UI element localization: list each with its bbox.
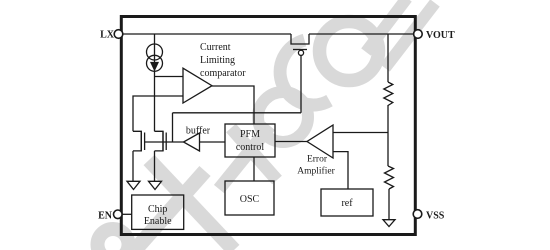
wire current source to main FET drain: [154, 71, 156, 131]
svg-text:Chip: Chip: [148, 204, 167, 215]
svg-text:VOUT: VOUT: [426, 30, 455, 41]
wire buffer input: [200, 141, 226, 143]
wire EN to chip enable: [122, 213, 131, 215]
watermark: [98, 0, 436, 250]
wire buffer output junction up: [172, 113, 174, 142]
wire error amp plus input to divider: [333, 132, 388, 134]
watermark bar backslash 1: [149, 160, 234, 250]
svg-text:Amplifier: Amplifier: [297, 166, 335, 177]
watermark small ring: [258, 92, 308, 142]
wire comparator output: [212, 86, 254, 124]
wire gate drive node horizontal: [173, 112, 302, 114]
IC outer border: [121, 17, 415, 235]
svg-text:Current: Current: [200, 42, 231, 53]
ground symbol right: [149, 181, 162, 189]
watermark bar slash 2: [219, 126, 270, 189]
watermark arc bottom-left: [98, 229, 129, 250]
wire Q1a source down: [132, 151, 134, 181]
pin VSS: [413, 210, 422, 219]
svg-text:control: control: [236, 142, 265, 153]
op-amp U1 current limiting comparator: [183, 68, 212, 103]
wire Q1 source down: [154, 151, 156, 181]
watermark bar backslash 2: [231, 128, 277, 180]
svg-text:LX: LX: [100, 29, 115, 40]
wire comparator plus input: [155, 76, 184, 78]
watermark bar slash B: [385, 3, 435, 68]
wire error amp output to PFM: [275, 141, 307, 143]
chip enable block: [132, 195, 184, 229]
transistor Q1 (main NMOS): [155, 131, 164, 151]
svg-text:Limiting: Limiting: [200, 55, 235, 66]
svg-text:Enable: Enable: [144, 216, 172, 227]
ground symbol left: [127, 181, 140, 189]
pin VOUT: [414, 30, 423, 39]
svg-text:buffer: buffer: [186, 126, 211, 137]
svg-text:EN: EN: [98, 211, 113, 222]
resistor R2: [385, 166, 394, 189]
watermark ring mid C-arc: [280, 40, 329, 105]
OSC block: [225, 181, 274, 215]
svg-text:VSS: VSS: [426, 210, 445, 221]
wire R2 to ground: [388, 189, 390, 220]
wire PMOS gate down: [300, 55, 302, 112]
svg-text:PFM: PFM: [240, 129, 260, 140]
watermark bar slash A: [366, 0, 407, 52]
op-amp U2 error amplifier: [307, 125, 333, 158]
wire PFM to OSC: [253, 157, 255, 181]
svg-text:ref: ref: [341, 198, 353, 209]
pin LX: [114, 30, 123, 39]
watermark ring right: [320, 22, 379, 81]
svg-text:Error: Error: [307, 155, 328, 165]
current source I1: [154, 34, 156, 46]
ref block: [321, 189, 373, 216]
pin EN: [114, 210, 123, 219]
wire LX rail top: [122, 33, 291, 35]
wire divider middle: [387, 105, 389, 166]
wire comparator minus input: [133, 96, 183, 131]
svg-text:comparator: comparator: [200, 68, 246, 79]
wire top rail to VOUT: [309, 33, 414, 35]
wire gate line from buffer: [145, 141, 184, 143]
watermark bar slash 1: [135, 171, 205, 250]
wire error amp minus input to ref: [333, 152, 348, 189]
PFM control block: [225, 124, 275, 157]
transistor Q1a (sense NMOS): [133, 131, 141, 151]
buffer amplifier: [184, 133, 200, 151]
resistor R1: [384, 82, 393, 106]
wire VOUT to divider top: [387, 34, 389, 82]
ground symbol divider: [383, 220, 395, 227]
transistor Q2 (PMOS inline on top rail): [291, 34, 309, 44]
svg-text:OSC: OSC: [240, 194, 260, 205]
